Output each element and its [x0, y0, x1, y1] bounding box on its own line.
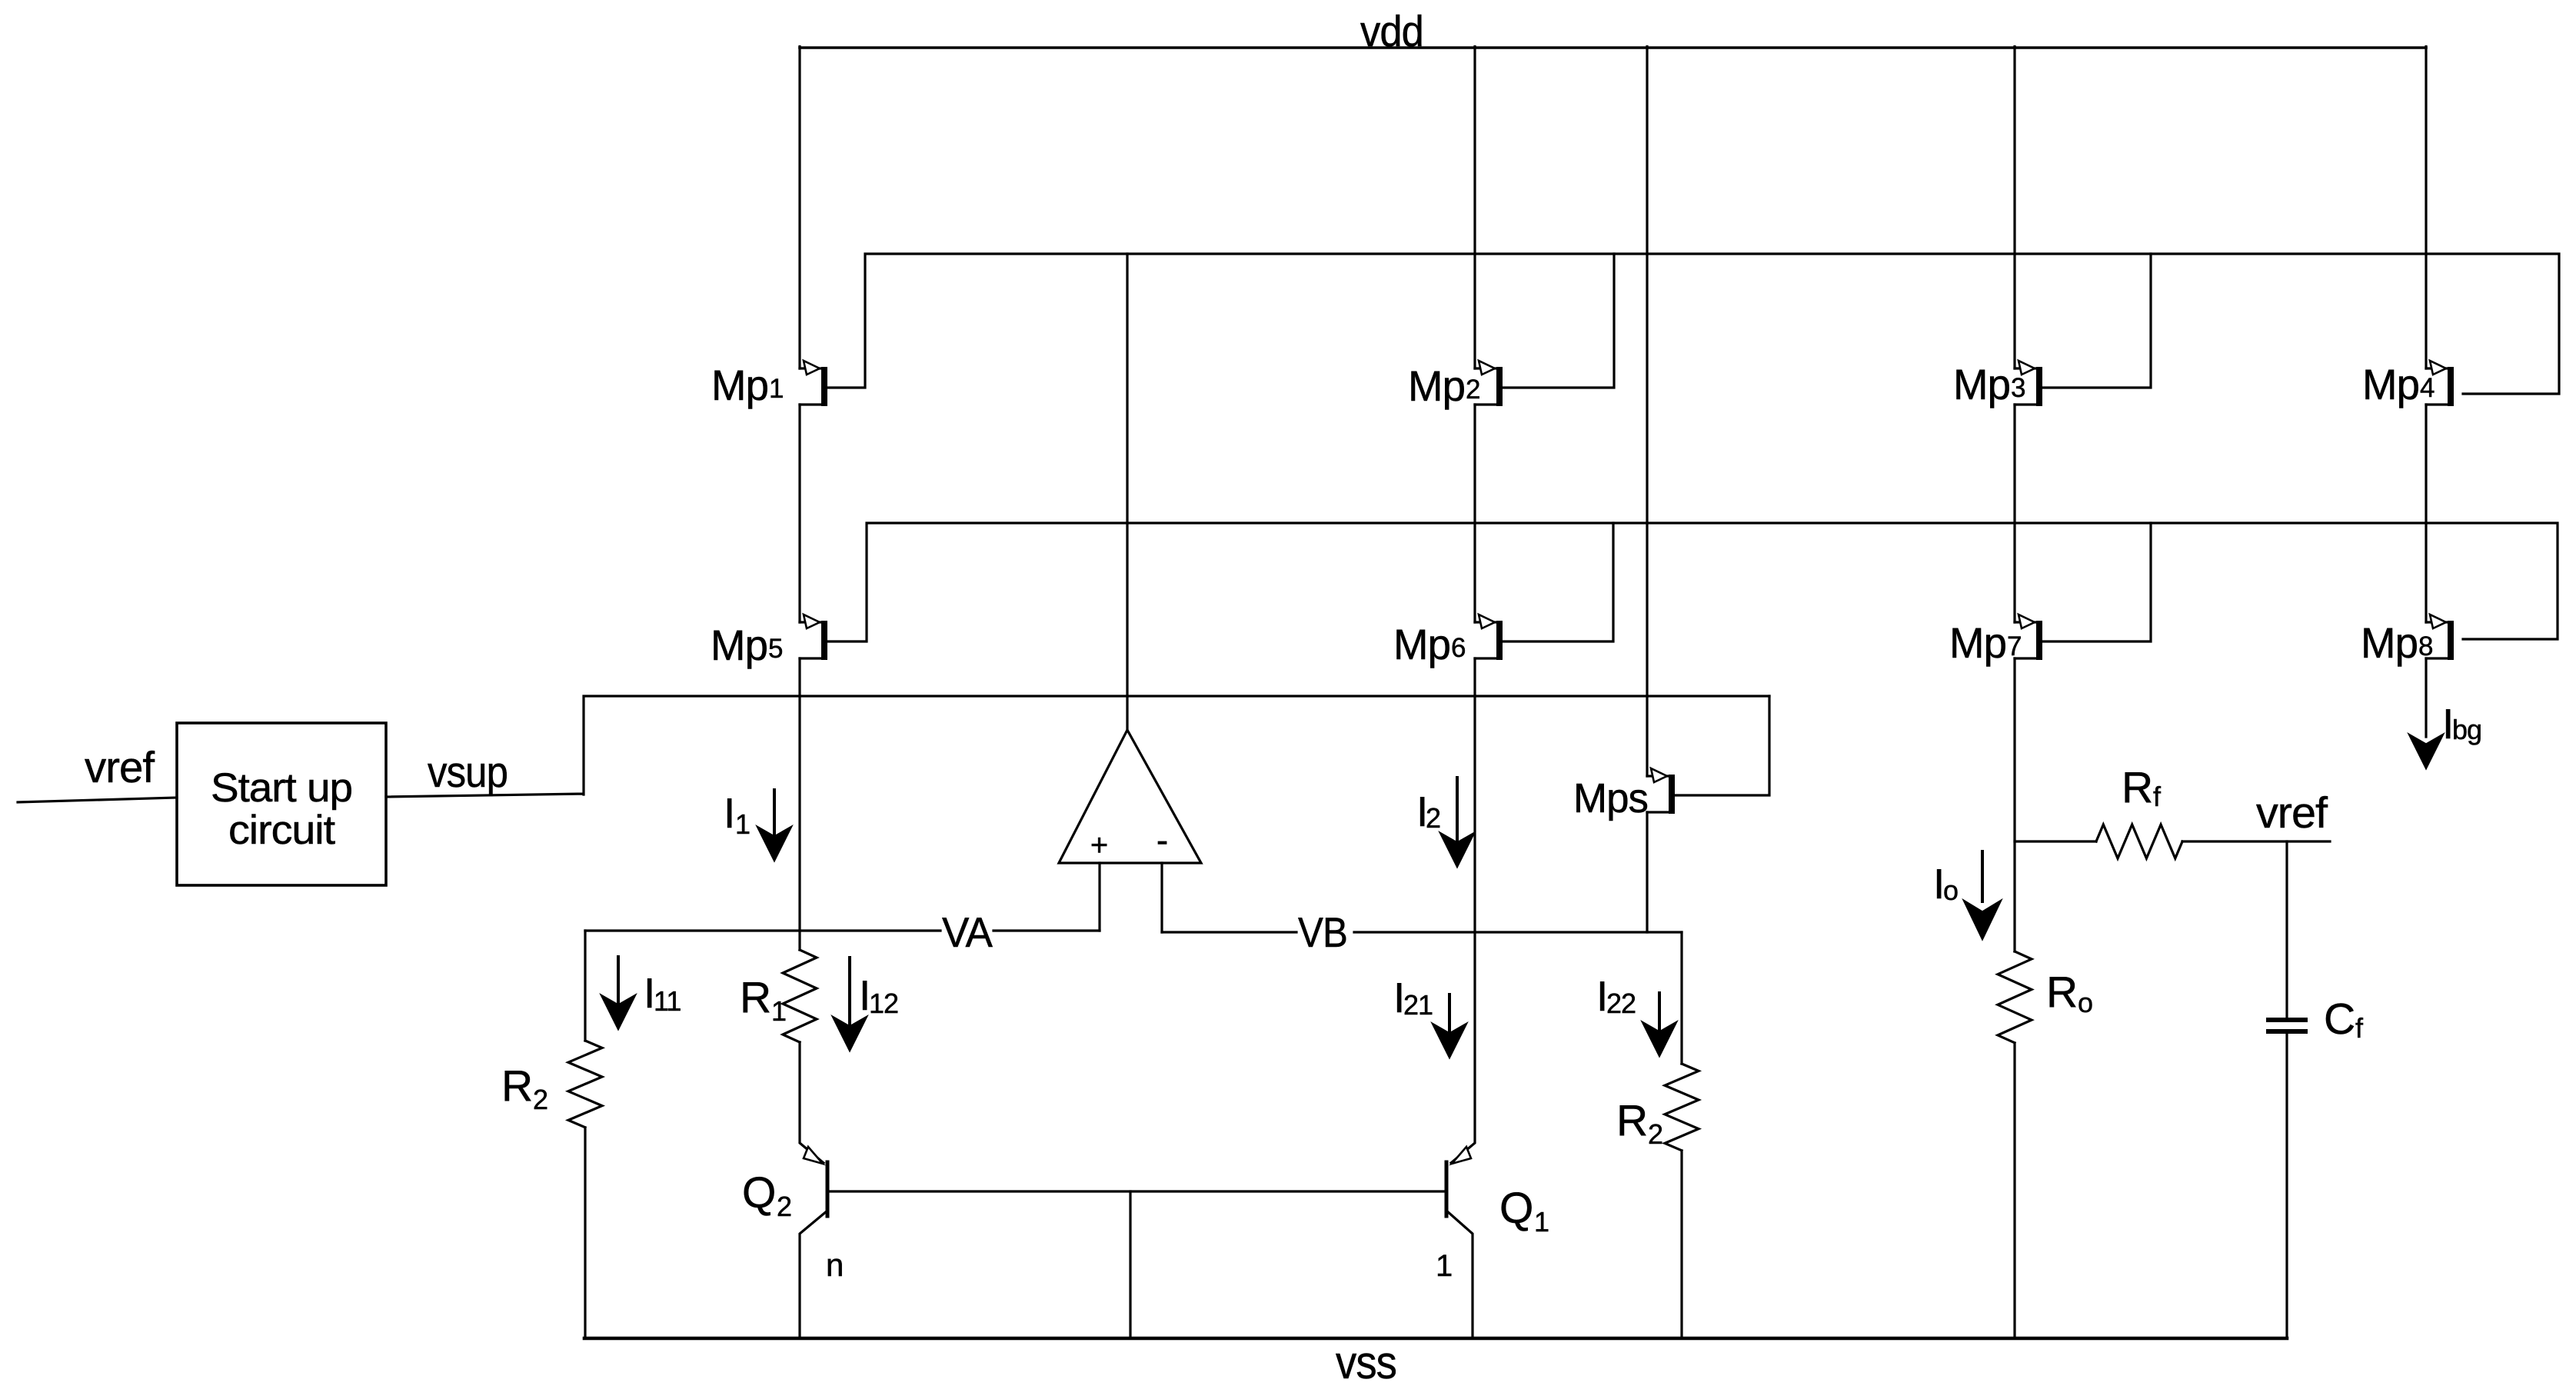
transistor Mp3 [2015, 361, 2042, 406]
svg-text:Q: Q [742, 1168, 775, 1218]
svg-text:22: 22 [1606, 988, 1636, 1019]
current arrow Io [1981, 851, 1984, 901]
svg-text:R: R [1616, 1096, 1647, 1145]
svg-text:2: 2 [777, 1191, 791, 1222]
capacitor Cf [2285, 841, 2288, 1020]
svg-text:4: 4 [2420, 373, 2435, 403]
resistor Ro [1998, 951, 2032, 1043]
svg-text:vref: vref [2256, 788, 2328, 838]
svg-text:o: o [1943, 875, 1958, 906]
svg-text:12: 12 [869, 988, 898, 1019]
wire op-amp output to gate bus row1 [1126, 254, 1128, 730]
current arrow I1 [773, 790, 776, 838]
svg-text:R: R [2046, 968, 2077, 1017]
gate bus row1 (Mp1-Mp4 gates) [827, 254, 2559, 394]
wire Mp3 gate riser [2042, 254, 2151, 388]
resistor R2 (right) [1680, 932, 1682, 1064]
svg-text:6: 6 [1451, 633, 1465, 663]
wire vdd to Mp3 source [2013, 47, 2015, 369]
transistor Mp7 [2015, 615, 2042, 660]
transistor Mp1 [800, 361, 827, 406]
node VB wire [1162, 931, 1682, 933]
transistor Mp2 [1475, 361, 1503, 406]
svg-text:2: 2 [1426, 802, 1440, 834]
svg-text:bg: bg [2452, 714, 2481, 745]
svg-text:-: - [1157, 820, 1167, 860]
svg-text:1: 1 [1436, 1249, 1452, 1283]
svg-text:Mp: Mp [711, 621, 767, 669]
svg-text:2: 2 [533, 1084, 547, 1115]
wire vdd to Mp4 source [2425, 47, 2427, 369]
wire Mp7 gate riser [2042, 523, 2151, 641]
transistor Mp6 [1475, 615, 1503, 660]
current arrow I22 [1658, 993, 1661, 1034]
current arrow Ibg [2410, 735, 2442, 768]
svg-text:3: 3 [2011, 373, 2025, 403]
transistor Mp4 [2426, 361, 2454, 406]
svg-text:R: R [501, 1061, 532, 1111]
wire vdd to Mp1 source [798, 47, 800, 369]
current arrow I21 [1448, 995, 1451, 1035]
wire Mp8 drain (Ibg) [2425, 658, 2427, 737]
transistor Mps [1647, 768, 1675, 814]
svg-text:5: 5 [768, 634, 782, 664]
svg-text:1: 1 [771, 995, 786, 1027]
svg-text:Mp: Mp [2361, 618, 2418, 667]
resistor Rf [2015, 840, 2096, 842]
wire Mp2 drain to Mp6 source [1473, 405, 1476, 622]
svg-text:o: o [2078, 987, 2092, 1018]
svg-text:Mp: Mp [1949, 618, 2006, 667]
wire Mp5 drain to node VA (I1 branch) [798, 658, 800, 931]
svg-text:VB: VB [1298, 908, 1347, 956]
svg-text:8: 8 [2418, 631, 2432, 661]
wire op-amp noninverting input to node VA [1098, 863, 1100, 931]
svg-text:Mp: Mp [1408, 361, 1465, 410]
current arrow I12 [848, 958, 851, 1028]
current arrow I11 [617, 957, 620, 1007]
wire base bus to vss [1129, 1191, 1131, 1338]
svg-text:Q: Q [1499, 1184, 1533, 1233]
svg-text:circuit: circuit [228, 808, 335, 853]
power rail vdd [800, 46, 2426, 49]
node VA wire [585, 929, 1100, 931]
svg-text:11: 11 [654, 985, 681, 1017]
svg-text:vsup: vsup [428, 748, 508, 797]
resistor R2 (left) [584, 931, 586, 1041]
resistor R1 [798, 931, 800, 950]
svg-text:2: 2 [1466, 375, 1479, 405]
svg-text:vss: vss [1336, 1337, 1396, 1388]
svg-text:C: C [2324, 995, 2355, 1044]
svg-text:vref: vref [85, 743, 155, 792]
svg-text:21: 21 [1403, 989, 1433, 1021]
start-up circuit block [177, 723, 386, 885]
svg-text:Mp: Mp [1953, 360, 2010, 408]
wire vdd to Mps source [1646, 47, 1648, 777]
transistor Mp8 [2426, 615, 2454, 660]
current arrow I2 [1456, 778, 1459, 842]
svg-text:R: R [740, 973, 770, 1022]
svg-text:Mps: Mps [1573, 775, 1648, 821]
svg-text:Mp: Mp [1393, 620, 1450, 668]
wire Mp7 drain to Ro (Io branch) [2013, 658, 2015, 951]
svg-text:n: n [826, 1247, 843, 1283]
svg-text:Start up: Start up [211, 765, 352, 811]
wire vref input [18, 798, 177, 802]
svg-text:Mp: Mp [711, 361, 768, 409]
op-amp U1 [1059, 730, 1201, 863]
svg-text:1: 1 [735, 808, 750, 840]
transistor Q1 [1452, 1147, 1471, 1164]
svg-text:7: 7 [2007, 631, 2021, 661]
wire op-amp inverting input to node VB [1160, 863, 1163, 932]
wire Mp2 gate riser [1503, 254, 1614, 388]
transistor Mp5 [800, 615, 827, 660]
gate bus row2 (Mp5-Mp8 gates) [827, 523, 2558, 641]
svg-text:vdd: vdd [1360, 7, 1423, 56]
ground rail vss [584, 1337, 2287, 1341]
base bus Q1/Q2 [827, 1190, 1446, 1192]
svg-text:VA: VA [942, 908, 993, 956]
svg-text:1: 1 [1534, 1206, 1549, 1238]
svg-text:R: R [2122, 763, 2152, 812]
wire Mps drain to VB [1646, 812, 1648, 932]
svg-text:+: + [1090, 828, 1107, 862]
wire vsup from start-up to rail [386, 696, 1769, 797]
wire Mp3 drain to Mp7 source [2013, 405, 2015, 622]
wire Mp1 drain to Mp5 source [798, 405, 800, 622]
svg-text:2: 2 [1648, 1118, 1662, 1150]
wire vdd to Mp2 source [1473, 47, 1476, 369]
transistor Q2 [800, 1042, 824, 1163]
wire Mps gate to vsup [1675, 696, 1769, 795]
wire Mp4 drain to Mp8 source [2425, 405, 2427, 622]
wire Mp6 gate riser [1503, 523, 1613, 641]
svg-text:Mp: Mp [2362, 360, 2419, 408]
svg-text:I: I [724, 789, 734, 837]
wire Mp6 drain to VB and Q1 emitter [1451, 658, 1475, 1163]
svg-text:1: 1 [769, 374, 783, 404]
